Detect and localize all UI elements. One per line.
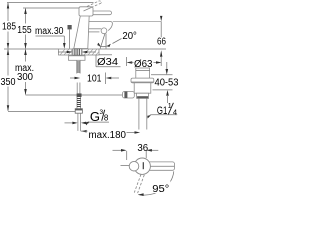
pop-up rod socket bbox=[123, 92, 135, 99]
20 degree angle: tilted leg bbox=[100, 34, 105, 49]
dimension 350 bbox=[1, 49, 16, 111]
dimension 40-53 bbox=[151, 62, 179, 103]
95 degree swing arc bbox=[138, 171, 173, 195]
top view small circle bbox=[129, 161, 139, 171]
label G3/8 bbox=[86, 109, 109, 125]
hose connector G3/8 bbox=[75, 109, 82, 114]
deck hatched left block bbox=[59, 49, 73, 55]
drain flange bbox=[131, 78, 154, 83]
wire reference line hose end y=111.3 bbox=[8, 110, 75, 112]
svg-text:40-53: 40-53 bbox=[155, 77, 179, 88]
threaded stud lower segment bbox=[77, 83, 80, 94]
aerator circle bbox=[101, 28, 107, 34]
lever raised position dashed bbox=[84, 1, 102, 11]
drain tailpipe G1 1/4 bbox=[139, 98, 147, 129]
mounting nut below deck bbox=[69, 56, 86, 61]
svg-text:155: 155 bbox=[17, 25, 32, 36]
label G1 1/4 bbox=[147, 101, 177, 119]
svg-text:300: 300 bbox=[17, 72, 33, 83]
dimension max.180 bbox=[81, 130, 141, 141]
dimension 155 bbox=[17, 8, 32, 49]
svg-text:350: 350 bbox=[1, 77, 16, 88]
svg-text:8: 8 bbox=[104, 114, 109, 123]
top view lever stick bbox=[148, 162, 175, 170]
svg-text:95°: 95° bbox=[152, 184, 169, 195]
drain plug upper cylinder bbox=[136, 68, 150, 78]
top view spout direction tick bbox=[121, 165, 130, 167]
faucet spout shoulder bbox=[88, 31, 99, 33]
wire reference line 155 bbox=[23, 7, 79, 9]
flexible hose bbox=[77, 113, 79, 131]
top view center tick bbox=[142, 162, 144, 169]
drain body bbox=[134, 83, 151, 93]
pop-up rod vertical bbox=[69, 29, 71, 48]
dimension 101 bbox=[70, 73, 119, 85]
dimension max.30 with leader to deck bbox=[35, 26, 66, 49]
wire pop-up rod horizontal y=95 bbox=[26, 94, 124, 96]
faucet cartridge cap bbox=[79, 7, 93, 16]
dimension 185 bbox=[2, 3, 16, 49]
faucet shank through deck (dark section) bbox=[73, 49, 82, 55]
svg-text:185: 185 bbox=[2, 22, 16, 33]
threaded section below clamp bbox=[77, 97, 81, 109]
20 degree angle: vertical leg bbox=[105, 34, 107, 49]
dimension max.300 bbox=[15, 49, 34, 95]
hose diameter arrows bbox=[65, 122, 90, 125]
lever horizontal position bbox=[90, 11, 112, 15]
dimension 36 (top view) bbox=[113, 143, 159, 160]
dimension diameter 34 arrows at deck bbox=[58, 51, 96, 54]
svg-text:36: 36 bbox=[137, 143, 148, 154]
svg-text:20°: 20° bbox=[122, 31, 136, 42]
svg-text:66: 66 bbox=[157, 37, 166, 48]
rod clamp node on stud bbox=[77, 93, 82, 97]
svg-text:max.30: max.30 bbox=[35, 26, 64, 37]
deck hatched right block bbox=[82, 49, 99, 55]
pop-up rod knob above deck bbox=[68, 25, 72, 29]
svg-text:max.180: max.180 bbox=[89, 130, 127, 141]
label diameter 34 bbox=[96, 55, 121, 68]
dimension 66 bbox=[113, 16, 167, 57]
deck reference line bbox=[4, 48, 59, 50]
faucet spout tube bbox=[89, 21, 113, 30]
20 degree arc with arrows bbox=[97, 44, 110, 46]
wire reference line 185 top bbox=[7, 2, 94, 4]
drain body step bbox=[137, 93, 149, 98]
top view outer cap circle bbox=[134, 158, 150, 174]
svg-text:101: 101 bbox=[87, 74, 102, 85]
faucet body bbox=[74, 15, 89, 49]
dimension diameter 63 bbox=[127, 57, 162, 70]
top view lever swung dashed bbox=[134, 174, 144, 193]
20 degree leader bbox=[113, 39, 122, 44]
label 95deg bbox=[151, 181, 170, 193]
threaded stud upper segment bbox=[77, 60, 80, 73]
